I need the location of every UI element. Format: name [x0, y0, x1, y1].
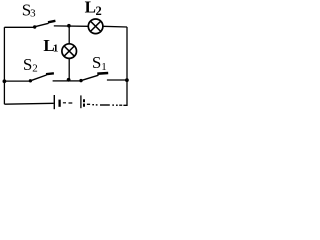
svg-text:1: 1	[53, 42, 59, 54]
label L2	[85, 0, 102, 18]
svg-text:2: 2	[32, 63, 38, 75]
lamp L2	[88, 19, 103, 34]
wire top-right segment	[103, 25, 127, 28]
switch S3	[33, 21, 55, 29]
svg-text:S: S	[23, 55, 32, 74]
wire right side lower	[123, 80, 127, 105]
svg-text:2: 2	[96, 4, 102, 18]
label S2	[23, 55, 38, 74]
label L1	[43, 36, 58, 55]
wire lamp L1 branch upper	[68, 26, 70, 44]
wire right side upper	[126, 27, 128, 80]
svg-text:L: L	[85, 0, 96, 17]
wire middle segment J2 to S1	[70, 80, 80, 82]
node J2 junction middle	[67, 78, 71, 82]
node J3 junction left	[3, 79, 7, 83]
wire bottom-left segment	[4, 102, 53, 105]
wire middle-left segment	[4, 80, 29, 82]
node J1 junction top	[67, 24, 71, 28]
wire dashed between cells	[63, 102, 72, 104]
wire middle segment S2 to J2	[53, 80, 68, 82]
node J4 junction right	[125, 78, 129, 82]
battery cell 2 short plate (broken)	[83, 99, 85, 106]
battery cell 2 long plate	[80, 95, 82, 108]
wire lamp L1 branch lower	[68, 58, 70, 81]
battery cell 1 long plate	[53, 95, 55, 109]
wire middle segment S1 to J4	[107, 79, 127, 81]
switch S1	[79, 73, 108, 82]
wire dash-dot bottom-right	[87, 104, 122, 106]
label S1	[92, 53, 107, 73]
wire left side	[3, 27, 5, 104]
svg-text:1: 1	[101, 61, 107, 73]
svg-text:S: S	[92, 53, 101, 72]
svg-text:3: 3	[30, 7, 36, 19]
switch S2	[29, 73, 54, 82]
label S3	[22, 1, 36, 20]
wire top-left segment	[4, 26, 33, 28]
lamp L1	[62, 44, 77, 59]
wire top middle segment	[54, 25, 89, 27]
battery cell 1 short plate	[58, 100, 60, 107]
